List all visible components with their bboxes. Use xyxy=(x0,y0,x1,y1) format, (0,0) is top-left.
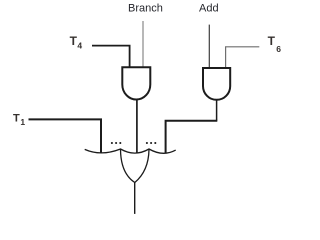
wire Add to U2 input xyxy=(208,25,210,68)
svg-text:T: T xyxy=(70,34,78,48)
or-gate U3 scalloped input edge xyxy=(85,149,176,153)
and-gate U1 (Branch AND T4) xyxy=(122,67,150,99)
wire T1 to OR input xyxy=(29,119,102,152)
ellipsis dots left (more inputs) xyxy=(111,142,122,144)
or-gate U3 body xyxy=(121,150,150,183)
ellipsis dots right (more inputs) xyxy=(146,142,157,144)
svg-text:Add: Add xyxy=(199,2,219,14)
wire U2 output vertical from gate xyxy=(216,100,218,121)
label T6 xyxy=(268,34,282,54)
wire Branch to U1 input xyxy=(142,21,144,67)
and-gate U2 (Add AND T6) xyxy=(203,68,230,100)
svg-text:6: 6 xyxy=(276,44,281,54)
svg-text:4: 4 xyxy=(77,41,82,51)
label T1 xyxy=(13,113,25,127)
wire U3 output xyxy=(134,183,136,214)
label T4 xyxy=(70,34,83,51)
svg-text:T: T xyxy=(268,34,276,48)
wire U2 output elbow to OR input xyxy=(166,121,218,153)
svg-text:T: T xyxy=(13,113,20,125)
wire T4 to U1 input xyxy=(92,46,130,67)
wire U1 output to OR input xyxy=(136,100,138,153)
wire T6 to U2 input xyxy=(226,47,260,68)
svg-text:Branch: Branch xyxy=(128,2,163,14)
svg-text:1: 1 xyxy=(20,117,25,127)
